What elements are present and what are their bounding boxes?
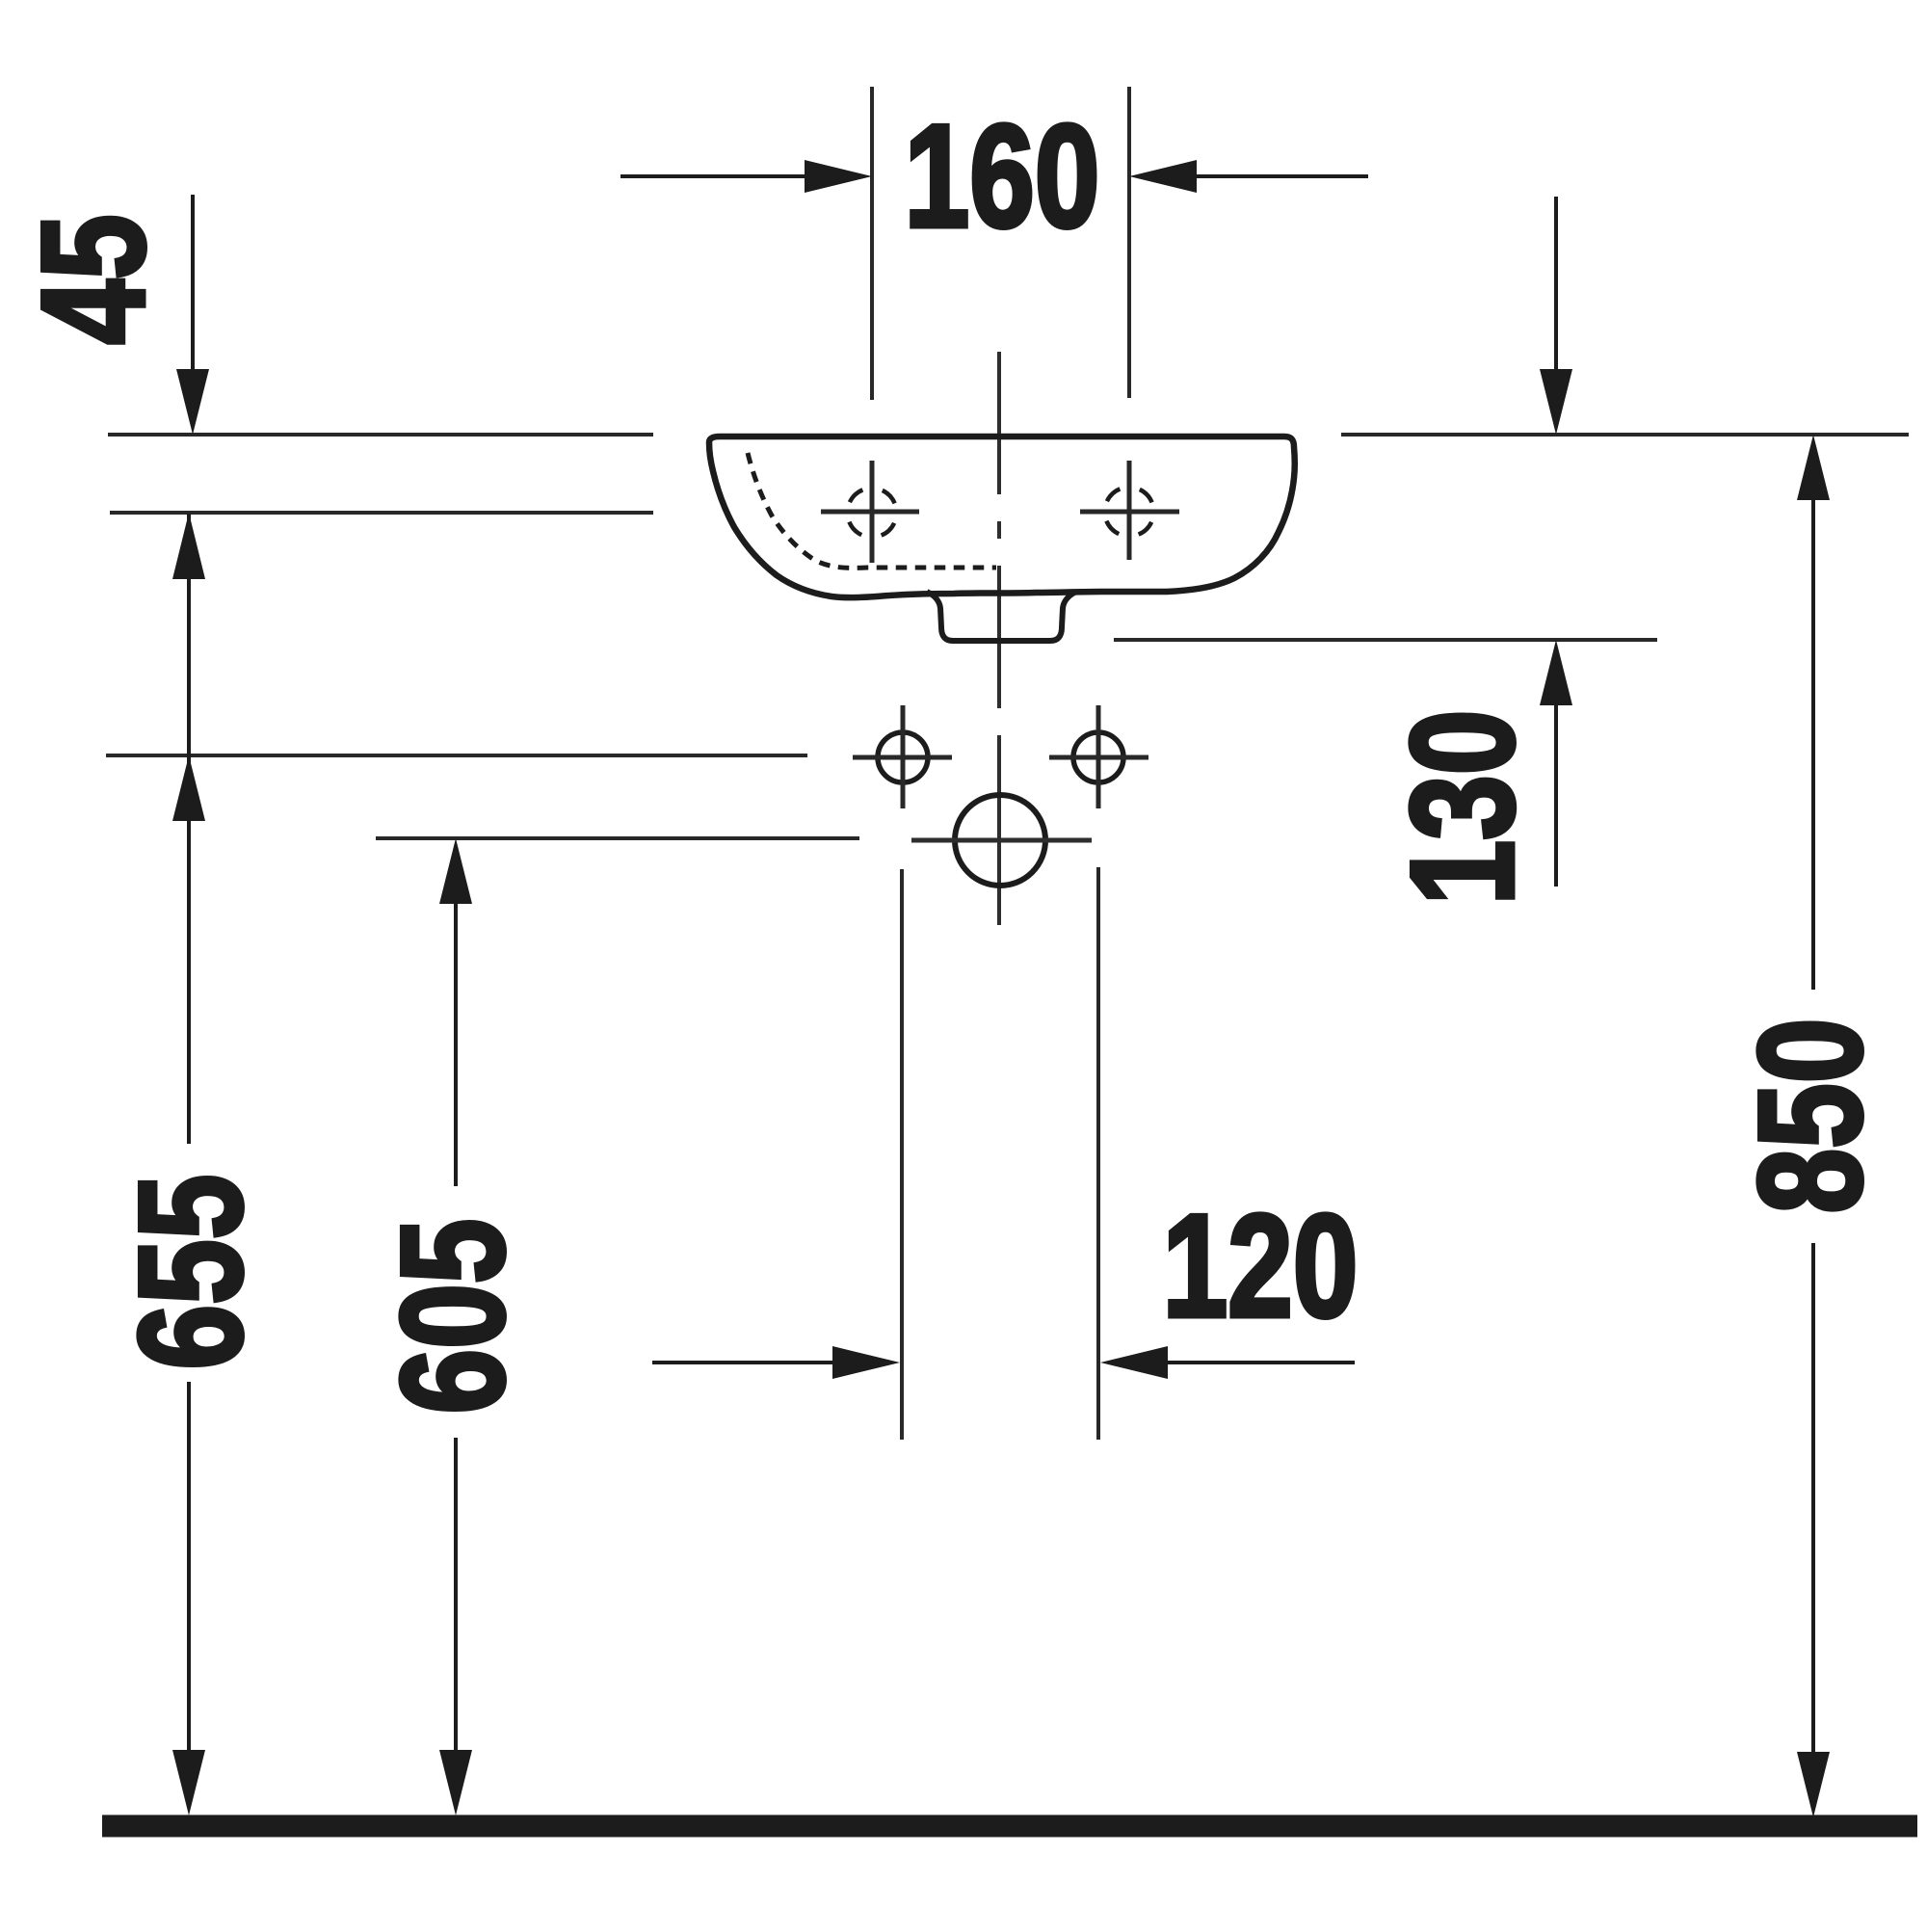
right fixing hole crosshair bbox=[1049, 705, 1148, 808]
rim level reference line right bbox=[1341, 433, 1909, 437]
160 extension line left bbox=[870, 87, 874, 400]
right tap hole crosshair bbox=[1080, 461, 1179, 560]
fixing holes level reference line bbox=[106, 754, 807, 757]
right tap hole dashed circle bbox=[1096, 479, 1162, 544]
605 upper arrow line bbox=[439, 838, 472, 1186]
120 extension line right bbox=[1096, 867, 1100, 1440]
basin outline bbox=[709, 437, 1295, 597]
drain level reference line bbox=[376, 836, 859, 840]
left tap hole crosshair bbox=[821, 461, 919, 563]
left tap hole dashed circle bbox=[839, 480, 905, 545]
outlet bottom reference line right bbox=[1114, 638, 1657, 642]
tap hole level reference line bbox=[110, 511, 653, 515]
160 extension line right bbox=[1127, 87, 1131, 398]
vertical centerline (lower solid part through drain) bbox=[997, 735, 1001, 925]
45 upper arrow line bbox=[176, 195, 209, 435]
left fixing hole crosshair bbox=[853, 705, 952, 808]
850 lower dimension line with floor arrow bbox=[1797, 1243, 1830, 1817]
130 lower arrow line bbox=[1540, 640, 1572, 887]
svg-text:45: 45 bbox=[12, 214, 175, 344]
drain hole bbox=[955, 795, 1045, 886]
655 lower dimension line with floor arrow bbox=[172, 1382, 205, 1815]
vertical centerline (dash-dot upper part) bbox=[997, 352, 1001, 714]
130 upper arrow line bbox=[1540, 197, 1572, 435]
45 lower arrow merged with 655 upper arrow line bbox=[172, 513, 205, 1144]
right fixing hole bbox=[1073, 732, 1123, 782]
drain outlet box bbox=[927, 592, 1076, 641]
floor line bbox=[102, 1815, 1917, 1838]
svg-text:130: 130 bbox=[1381, 710, 1544, 906]
drain hole crosshair bbox=[911, 838, 1092, 843]
120 dimension arrow left bbox=[652, 1346, 900, 1379]
svg-text:850: 850 bbox=[1729, 1019, 1892, 1214]
left fixing hole bbox=[878, 732, 928, 782]
svg-text:160: 160 bbox=[905, 94, 1100, 258]
120 extension line left bbox=[900, 869, 904, 1440]
basin inner bowl hidden edge (dashed) bbox=[748, 453, 996, 568]
svg-text:655: 655 bbox=[109, 1175, 273, 1370]
160 dimension arrow right bbox=[1129, 160, 1368, 193]
850 upper dimension line with arrow bbox=[1797, 435, 1830, 990]
120 dimension arrow right bbox=[1100, 1346, 1355, 1379]
rim level reference line left bbox=[108, 433, 653, 437]
605 lower dimension line with floor arrow bbox=[439, 1438, 472, 1815]
svg-text:605: 605 bbox=[371, 1219, 535, 1415]
svg-text:120: 120 bbox=[1163, 1184, 1359, 1348]
160 dimension arrow left bbox=[620, 160, 872, 193]
